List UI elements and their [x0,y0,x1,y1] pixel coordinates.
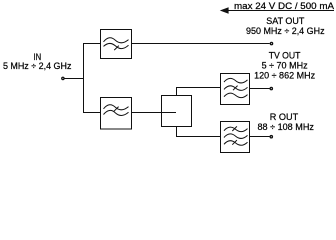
svg-text:950 MHz ÷ 2,4 GHz: 950 MHz ÷ 2,4 GHz [246,26,325,37]
node IN terminal [62,77,64,79]
wire trunk vertical with branches [84,44,102,113]
band-pass filter (R path) [221,122,250,153]
band-pass filter (TV path) [221,74,250,105]
high-pass filter (SAT path) [101,30,132,59]
node SAT OUT terminal [270,42,272,44]
low-pass filter (TV/R path) [101,98,132,130]
node TV OUT terminal [270,87,272,89]
wire SAT filter to SAT OUT [132,43,270,45]
wire TV filter to TV OUT [250,88,270,90]
wire splitter to R branch [177,127,221,137]
wire splitter to TV branch [177,88,221,96]
wire low-pass filter to splitter [132,112,177,114]
svg-text:5 MHz ÷ 2,4 GHz: 5 MHz ÷ 2,4 GHz [3,61,72,72]
wire IN to trunk [64,78,83,80]
svg-text:120 ÷ 862 MHz: 120 ÷ 862 MHz [254,71,315,82]
power feed arrow [220,7,334,14]
wire R filter to R OUT [250,136,270,138]
splitter [162,96,192,127]
node R OUT terminal [270,136,272,138]
svg-text:88 ÷ 108 MHz: 88 ÷ 108 MHz [257,122,314,133]
